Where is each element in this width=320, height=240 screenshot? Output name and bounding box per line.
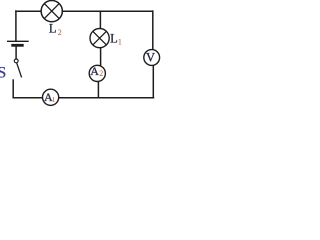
- lamp L1 cross: [93, 31, 107, 45]
- wire right vertical upper: [152, 10, 154, 50]
- wire middle branch A2 to bottom: [97, 81, 99, 98]
- lamp L2 cross: [44, 4, 59, 19]
- svg-text:V: V: [146, 50, 155, 64]
- svg-text:1: 1: [52, 96, 56, 104]
- wire right vertical lower: [152, 65, 154, 98]
- wire left lower (switch to bottom corner): [12, 79, 14, 98]
- wire bottom-left segment: [13, 97, 43, 99]
- lamp L2 circle: [41, 1, 62, 22]
- battery short thick plate: [11, 44, 23, 47]
- lamp L1 circle: [90, 28, 109, 47]
- ammeter A1 circle: [43, 89, 59, 105]
- svg-text:2: 2: [58, 28, 62, 37]
- ammeter A2 circle: [89, 65, 105, 81]
- switch blade: [17, 63, 22, 78]
- wire top-right segment: [62, 10, 154, 12]
- wire left between battery and switch: [15, 46, 17, 59]
- wire middle branch L1 to A2: [100, 48, 102, 67]
- svg-text:L: L: [49, 22, 57, 36]
- wire top-left segment: [15, 10, 41, 12]
- svg-text:L: L: [110, 31, 118, 45]
- svg-text:1: 1: [118, 37, 122, 46]
- wire left vertical upper: [15, 10, 17, 41]
- switch pivot circle: [14, 59, 18, 63]
- battery long plate: [7, 40, 29, 42]
- wire middle branch top: [99, 11, 101, 29]
- wire bottom-right segment: [59, 97, 155, 99]
- voltmeter V circle: [144, 50, 160, 66]
- svg-text:2: 2: [99, 69, 103, 78]
- svg-text:A: A: [90, 64, 99, 78]
- svg-text:S: S: [0, 65, 6, 82]
